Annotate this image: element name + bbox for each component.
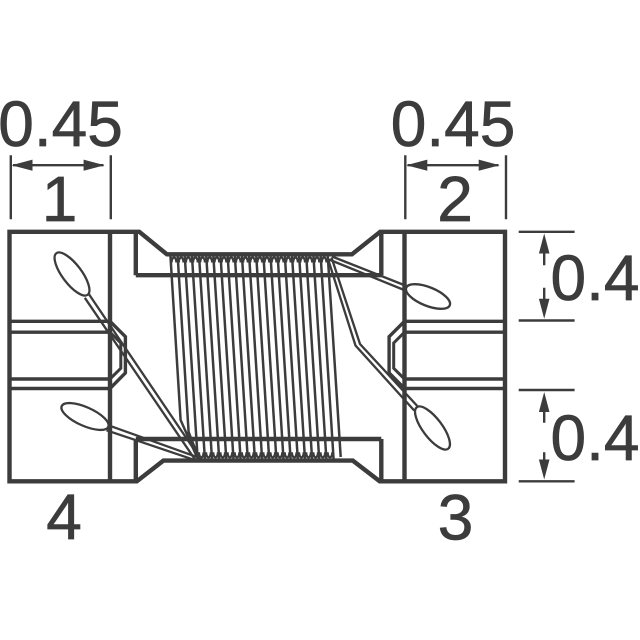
dimension 0.45 terminal 2 line [408,164,499,166]
svg-text:0.4: 0.4 [551,242,640,314]
dimension 0.45 terminal 1 extension lines [11,155,111,219]
flange inner edge top-left [134,232,138,275]
wire pin2 to winding [329,257,408,292]
coil winding strands [170,255,340,459]
weld ellipse pin 3 [409,401,456,454]
svg-text:4: 4 [46,481,82,553]
wire pin3 to winding [328,258,418,411]
body outline [10,232,506,481]
svg-text:2: 2 [437,163,473,235]
wire pin4 to winding [107,425,203,461]
arrowhead dim1 left [12,160,33,171]
svg-text:0.45: 0.45 [0,88,123,160]
dimension 0.4 upper arrow shafts [543,253,545,301]
flange inner edge bottom-right [379,439,383,481]
right flange tab inner [394,332,405,379]
core bottom edge [136,437,381,441]
arrowhead dim 0.4 lower bottom [539,460,550,480]
arrowhead dim1 right [84,160,105,171]
flange inner edge top-right [379,232,383,275]
arrowhead dim2 right [479,160,500,171]
left electrode band lines [10,321,111,388]
arrowhead dim 0.4 upper bottom [539,299,550,319]
coil winding bottom arcs [199,452,332,457]
core top edge [136,273,381,277]
left electrode inner edge [108,232,112,481]
arrowhead dim 0.4 upper top [539,234,550,254]
svg-text:1: 1 [42,163,78,235]
dimension 0.45 terminal 1 line [13,164,104,166]
dimension 0.4 lower arrow shafts [543,412,545,460]
arrowhead dim2 left [406,160,427,171]
left flange tab inner [110,332,121,379]
dimension 0.45 terminal 2 extension lines [405,155,506,219]
dimension 0.4 upper extension lines [519,232,575,321]
right electrode band lines [405,321,506,388]
weld ellipse pin 2 [403,279,454,314]
arrowhead dim 0.4 lower top [539,392,550,412]
weld ellipse pin 4 [58,398,112,436]
dimension 0.4 lower extension lines [519,390,575,481]
right electrode inner edge [402,232,406,481]
left flange tab outer [110,321,125,388]
right flange tab outer [389,321,404,388]
wire pin1 to winding [85,294,200,460]
svg-text:3: 3 [438,482,474,554]
flange inner edge bottom-left [134,439,138,481]
svg-text:0.45: 0.45 [391,88,516,160]
svg-text:0.4: 0.4 [551,402,640,474]
coil winding top arcs [172,257,327,262]
weld ellipse pin 1 [49,247,96,300]
